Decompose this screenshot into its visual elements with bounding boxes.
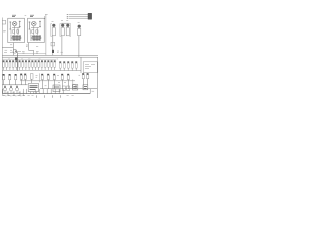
wire P1 stub right: [17, 50, 21, 52]
ground G2: [9, 88, 12, 91]
contact S1 inside K1 left: [9, 22, 11, 30]
relay B3: [72, 85, 77, 90]
bus line D: [2, 70, 81, 72]
control unit B2: [53, 85, 60, 92]
switch row2 x31: [30, 74, 33, 80]
motor M2 inside K2: [32, 21, 37, 26]
label on left border: [3, 31, 6, 32]
wire F1 down: [52, 36, 54, 56]
label K1: [12, 15, 16, 16]
wire left page border: [1, 18, 3, 94]
top right bus wires: [69, 15, 89, 19]
wire F4 down: [78, 36, 80, 57]
label specks above bottom bus left: [7, 91, 21, 93]
wire F2-F3 top link: [61, 22, 69, 24]
fuse F3: [66, 24, 69, 27]
label K2: [30, 15, 34, 16]
contact S4 inside K2 right: [39, 21, 41, 28]
fuse row 2 left group: [3, 74, 17, 80]
connector X1 block: [88, 13, 92, 19]
connector tab on left border: [2, 20, 5, 24]
fuse row2 mid group: [41, 74, 55, 75]
bus left low: [2, 84, 19, 86]
node tick riser X: [45, 14, 48, 16]
K2 internal wires: [30, 26, 39, 35]
junction stub J1: [17, 53, 19, 71]
label between boxes: [25, 15, 27, 17]
fuse row 1: [3, 60, 56, 70]
junction blob band: [15, 58, 17, 61]
wires row2 left down: [4, 80, 16, 85]
label dashes mid band: [22, 50, 39, 52]
wire stub to left border: [2, 47, 13, 49]
fuse pair far right: [82, 73, 88, 74]
fuse row2 right group: [61, 74, 69, 75]
bus line E: [20, 80, 75, 82]
label dashes row2 gaps: [36, 75, 81, 77]
corner label bottom right: [92, 90, 95, 92]
bus line B: [2, 56, 98, 58]
label dashes below bottom bus: [3, 95, 61, 97]
label near fuse row right: [61, 51, 63, 53]
pump P1 shading: [15, 51, 16, 53]
K1 internal wires: [11, 26, 20, 35]
bus lower mid: [40, 88, 97, 90]
contact S3 inside K2 left: [29, 22, 31, 30]
fuse labels top: [52, 21, 80, 23]
fuse row 1 right group: [59, 61, 77, 70]
bottom bus: [2, 93, 90, 95]
terminal drops above bottom bus: [3, 89, 63, 94]
connector cluster right of B2: [62, 86, 65, 90]
label mid low: [36, 45, 38, 47]
label near riser F2: [57, 51, 59, 53]
bus line F partial: [18, 53, 46, 55]
label specks bottom area: [5, 50, 41, 96]
relay K2 box: [28, 18, 45, 42]
label dashes bottom right: [45, 82, 74, 95]
wire K2 down: [29, 43, 34, 56]
wire right riser: [96, 57, 98, 98]
label under K1: [10, 44, 12, 46]
label dashes band upper: [8, 58, 58, 60]
control unit B1: [28, 84, 38, 92]
contact S2 inside K1 right: [19, 21, 21, 28]
K1 mid contact: [12, 30, 14, 33]
fuse F4: [78, 25, 81, 28]
ground G3: [15, 88, 18, 91]
junction box right: [80, 57, 82, 73]
wire corner right: [89, 89, 91, 94]
terminal ticks bottom-left: [3, 91, 23, 96]
K2 bottom contact row: [32, 36, 42, 40]
bus line C partial: [2, 58, 56, 60]
K2 mid contact: [32, 30, 34, 33]
ground G1: [3, 88, 6, 91]
splice blobs above grounds: [4, 86, 18, 87]
relay cluster row2 x20: [20, 74, 26, 75]
label dashes near band left: [4, 52, 18, 54]
wire F2 down: [61, 36, 63, 56]
fuse F2: [61, 24, 64, 27]
relay cluster right-mid: [73, 84, 76, 88]
label near K2 wire: [26, 45, 28, 46]
connector on F1 wire: [51, 42, 55, 46]
wire riser X: [45, 15, 47, 56]
wire risers lower right: [73, 79, 77, 88]
K1 bottom contact row: [12, 36, 22, 40]
pump P1 on K1 wire: [13, 49, 17, 53]
splice dot F1 wire: [52, 50, 54, 53]
relay K1 box: [8, 18, 25, 42]
relay B4: [83, 85, 88, 90]
wire K1 to bus: [12, 43, 14, 56]
motor M1 inside K1: [12, 21, 17, 26]
fuse F1: [52, 24, 55, 27]
node tick right of K2: [44, 16, 46, 19]
bus line A: [2, 54, 98, 56]
